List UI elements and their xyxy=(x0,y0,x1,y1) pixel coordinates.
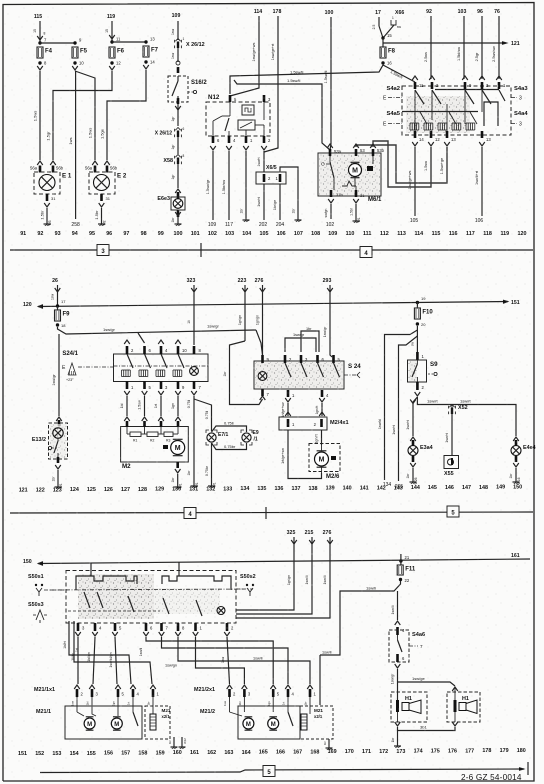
ground xyxy=(245,217,247,220)
svg-text:108: 108 xyxy=(311,231,320,237)
headlamp E2 xyxy=(92,161,98,165)
svg-text:S4a5: S4a5 xyxy=(386,111,400,117)
svg-text:102: 102 xyxy=(208,231,217,237)
svg-text:1sw/rt: 1sw/rt xyxy=(257,197,261,207)
fuse F11 xyxy=(397,565,403,575)
svg-text:180: 180 xyxy=(517,748,526,754)
svg-text:133: 133 xyxy=(223,486,232,492)
S50 coupling line xyxy=(50,589,253,590)
svg-text:53b: 53b xyxy=(377,148,385,153)
wire S50-3 1li/br xyxy=(77,637,79,684)
S24/1 top pin 8 xyxy=(193,346,196,354)
wire pin7 0.75li ground xyxy=(193,396,195,483)
S4a top pin 1 xyxy=(496,76,502,80)
wire F6 to E1 1.5gr xyxy=(53,71,112,160)
svg-text:167: 167 xyxy=(293,749,302,755)
svg-text:161: 161 xyxy=(511,553,520,559)
svg-text:0.75br: 0.75br xyxy=(205,465,209,476)
lamp E9/1 xyxy=(241,430,244,433)
M6/1 motor xyxy=(349,164,362,177)
svg-text:M2/6: M2/6 xyxy=(326,474,340,480)
svg-text:1rt: 1rt xyxy=(75,648,79,652)
S50 pin 8 xyxy=(177,623,180,631)
resistor unit M21 x2/1 right xyxy=(300,706,333,739)
svg-text:1br: 1br xyxy=(306,327,312,331)
svg-text:S4a3: S4a3 xyxy=(514,86,528,92)
M21/1 motor b xyxy=(111,718,122,729)
svg-text:171: 171 xyxy=(362,749,371,755)
wire S24-4 1gn/rt xyxy=(321,403,323,416)
svg-text:56b: 56b xyxy=(56,166,64,171)
pump M2/6 xyxy=(309,444,340,472)
svg-text:1.5sw: 1.5sw xyxy=(138,400,142,410)
svg-text:M: M xyxy=(319,456,325,463)
svg-text:124: 124 xyxy=(70,487,79,493)
N12 internal relay contact xyxy=(229,102,231,116)
svg-text:16: 16 xyxy=(387,61,392,66)
svg-text:1sw: 1sw xyxy=(221,656,225,663)
wire E7/1 ground 0.75br xyxy=(211,443,213,483)
svg-text:114: 114 xyxy=(254,9,262,15)
svg-text:X 26/12: X 26/12 xyxy=(155,131,172,137)
ground W1 xyxy=(177,484,179,487)
svg-text:2.5: 2.5 xyxy=(372,25,376,30)
svg-text:1gn: 1gn xyxy=(267,701,271,706)
wire F11 kink 1sw/li left xyxy=(320,581,401,655)
svg-text:1: 1 xyxy=(183,37,185,41)
svg-text:151: 151 xyxy=(511,300,520,306)
svg-text:1gn: 1gn xyxy=(112,701,116,706)
svg-text:1gr/gn: 1gr/gn xyxy=(256,315,260,325)
wire 71 feed node 21 xyxy=(399,559,402,562)
wire N12-6 1.5sw/gr to 109 xyxy=(212,151,214,220)
svg-text:+23°: +23° xyxy=(66,378,74,382)
svg-text:117: 117 xyxy=(225,222,233,228)
fuse F10 xyxy=(416,302,418,308)
svg-text:56a: 56a xyxy=(85,166,93,171)
svg-text:F11: F11 xyxy=(405,567,416,573)
svg-text:150: 150 xyxy=(23,559,32,565)
svg-text:101: 101 xyxy=(191,231,200,237)
svg-text:1.5ws: 1.5ws xyxy=(33,111,38,121)
node 14 xyxy=(144,60,147,63)
svg-text:96: 96 xyxy=(106,231,112,237)
S24/1 bottom pin 1 xyxy=(126,381,129,389)
svg-text:149: 149 xyxy=(496,485,505,491)
svg-text:H1: H1 xyxy=(462,696,469,702)
svg-text:1sw/rt: 1sw/rt xyxy=(392,425,396,435)
node 13 xyxy=(144,40,147,43)
ground stubs between motor groups xyxy=(173,737,175,744)
svg-text:1.5sw: 1.5sw xyxy=(424,161,428,171)
joint tick xyxy=(265,507,267,519)
section ref 3 xyxy=(97,245,109,256)
svg-text:148: 148 xyxy=(479,485,488,491)
S4a contact combs xyxy=(409,123,411,130)
S50 contact rail left xyxy=(76,576,137,590)
S24/1 lamp xyxy=(190,367,199,376)
S4a bottom pin 12 xyxy=(430,131,433,138)
ground W1 xyxy=(211,483,213,486)
svg-text:94: 94 xyxy=(72,231,78,237)
S50 contact rail right xyxy=(162,576,231,590)
svg-text:112: 112 xyxy=(380,231,389,237)
lamp E3a4 xyxy=(410,437,416,441)
wire X6/5 to ground 1br xyxy=(280,167,298,217)
svg-text:141: 141 xyxy=(360,486,369,492)
svg-text:10: 10 xyxy=(182,348,187,353)
wire F5 down 1ws to 258 xyxy=(75,71,77,219)
svg-text:110: 110 xyxy=(346,231,355,237)
svg-text:202: 202 xyxy=(259,222,268,228)
svg-text:132: 132 xyxy=(206,486,215,492)
S4a bottom pin 14 xyxy=(414,131,417,138)
svg-text:15: 15 xyxy=(387,33,392,38)
wire S4a6 to horns 1sw/gr xyxy=(397,669,399,700)
svg-text:153: 153 xyxy=(52,751,61,757)
svg-text:96: 96 xyxy=(477,9,483,15)
svg-text:3b1: 3b1 xyxy=(420,725,427,730)
svg-text:93: 93 xyxy=(55,231,61,237)
svg-text:M: M xyxy=(114,722,119,728)
S4a top pin 2 xyxy=(429,76,435,80)
svg-text:1sw/rt: 1sw/rt xyxy=(460,399,472,404)
ground W2 xyxy=(101,221,103,224)
svg-text:0.75li: 0.75li xyxy=(187,400,191,409)
S24 switch arms xyxy=(285,363,291,377)
svg-text:1gr/gn: 1gr/gn xyxy=(238,315,242,325)
svg-text:E9: E9 xyxy=(253,430,259,436)
svg-text:F9: F9 xyxy=(63,312,71,318)
fuse F4 xyxy=(37,47,43,58)
N12 pin 6 xyxy=(212,136,215,143)
svg-text:1sw/li: 1sw/li xyxy=(139,648,143,657)
svg-text:100: 100 xyxy=(325,10,334,16)
svg-text:115: 115 xyxy=(34,14,42,20)
svg-text:13: 13 xyxy=(486,137,491,142)
wire left stub to pin4 xyxy=(69,621,131,684)
svg-text:1br: 1br xyxy=(187,470,191,476)
svg-text:W3: W3 xyxy=(48,220,52,225)
wire horn grounds 3b1 xyxy=(395,722,401,726)
lamp E6e3 xyxy=(177,192,180,199)
svg-text:123: 123 xyxy=(53,487,62,493)
wire M2/4x1-1 1rt/ge+sw loop xyxy=(288,430,322,479)
svg-text:S50s3: S50s3 xyxy=(28,602,44,608)
wire link F6-F7 xyxy=(112,41,146,43)
switch S16/2 xyxy=(168,76,188,102)
svg-text:1gr: 1gr xyxy=(171,116,175,122)
N12 pin 1 xyxy=(245,136,248,143)
svg-text:150: 150 xyxy=(513,485,522,491)
S50 pin 2 xyxy=(226,623,229,631)
section ref 4 xyxy=(360,247,372,258)
svg-text:1sw/li: 1sw/li xyxy=(322,651,332,655)
wire S50-4 1bl/gn xyxy=(93,637,95,684)
divider line 2 xyxy=(10,512,533,513)
wire F11 down 1sw/li xyxy=(397,591,399,620)
svg-text:3: 3 xyxy=(519,96,522,102)
svg-text:154: 154 xyxy=(70,751,79,757)
joint tick xyxy=(200,243,202,257)
wire S4a-12 to M6/1 53b 1.5sw xyxy=(373,141,431,187)
svg-text:1gr: 1gr xyxy=(171,144,175,150)
svg-text:53a: 53a xyxy=(334,149,342,154)
svg-text:M: M xyxy=(246,722,251,728)
svg-text:X58: X58 xyxy=(163,158,173,164)
bus 120-151 xyxy=(38,302,508,307)
M21/1 motor a xyxy=(84,718,95,729)
svg-text:1gn/rt: 1gn/rt xyxy=(315,406,319,415)
svg-text:104: 104 xyxy=(242,231,251,237)
M21/2 motor a xyxy=(243,718,254,729)
wiper motor unit M6/1 xyxy=(318,153,381,196)
svg-text:137: 137 xyxy=(292,486,301,492)
svg-text:135: 135 xyxy=(257,486,266,492)
bus 150-161 xyxy=(38,559,530,564)
connector X58 xyxy=(175,155,180,158)
S4a top pin 11 xyxy=(412,76,418,80)
svg-text:1.5sw/li: 1.5sw/li xyxy=(287,78,300,83)
svg-text:1sw/rt: 1sw/rt xyxy=(257,157,261,166)
svg-text:M: M xyxy=(175,445,181,452)
svg-text:121: 121 xyxy=(511,41,520,47)
svg-text:1sw/gr: 1sw/gr xyxy=(207,324,219,329)
ground stub M21/2 xyxy=(328,739,330,745)
svg-text:143: 143 xyxy=(394,485,403,491)
fuse F8 xyxy=(380,47,386,58)
S50 inner dashes xyxy=(68,610,160,612)
svg-text:161: 161 xyxy=(190,750,199,756)
wire X52 to X55 1sw/rt xyxy=(451,414,453,455)
wire to S16/2 1sw xyxy=(177,48,179,62)
svg-text:1sw/li: 1sw/li xyxy=(253,657,263,661)
svg-text:W12: W12 xyxy=(183,738,187,744)
wire branch 134 xyxy=(385,330,418,480)
wire X52 to E4e4 1sw/rt xyxy=(452,405,516,437)
svg-text:M2: M2 xyxy=(122,463,131,470)
svg-text:76: 76 xyxy=(494,9,500,15)
S24 bottom pin 1 xyxy=(287,390,290,397)
svg-text:E13/2: E13/2 xyxy=(32,437,46,443)
svg-text:106: 106 xyxy=(475,218,484,224)
svg-text:sw: sw xyxy=(411,341,415,346)
svg-text:3: 3 xyxy=(519,122,522,128)
svg-text:1.5ge: 1.5ge xyxy=(100,128,105,139)
node 15 xyxy=(381,36,384,39)
svg-text:1sw/rt: 1sw/rt xyxy=(406,420,410,430)
svg-text:M: M xyxy=(352,167,358,174)
svg-text:17: 17 xyxy=(61,299,66,304)
svg-text:1.5bl/sw: 1.5bl/sw xyxy=(457,47,461,61)
svg-text:122: 122 xyxy=(36,487,45,493)
svg-text:276: 276 xyxy=(255,278,264,284)
wire branch to M6/1 53a 1.5sw/li xyxy=(234,80,330,150)
svg-text:2.5gr: 2.5gr xyxy=(475,52,479,61)
svg-text:0.75li: 0.75li xyxy=(224,421,234,426)
svg-text:R3: R3 xyxy=(166,439,170,443)
svg-text:1sw/li: 1sw/li xyxy=(323,575,327,584)
node 18 xyxy=(56,323,59,326)
node 11 xyxy=(110,40,113,43)
switch S4a6 xyxy=(396,627,399,635)
svg-text:2.5ws/sw: 2.5ws/sw xyxy=(492,46,496,62)
svg-text:1gr/gn: 1gr/gn xyxy=(287,575,291,585)
svg-text:1.5sw/li: 1.5sw/li xyxy=(290,70,303,75)
svg-text:174: 174 xyxy=(414,749,423,755)
svg-text:325: 325 xyxy=(287,530,296,536)
blower unit M2 xyxy=(121,427,189,463)
svg-text:8: 8 xyxy=(183,154,185,158)
S24 top pin 6 xyxy=(316,355,319,363)
svg-text:15: 15 xyxy=(33,29,37,33)
svg-text:115: 115 xyxy=(432,231,441,237)
svg-text:F10: F10 xyxy=(422,310,433,316)
svg-text:S4a2: S4a2 xyxy=(386,86,400,92)
svg-text:107: 107 xyxy=(294,231,303,237)
svg-text:1.5sw/gr: 1.5sw/gr xyxy=(206,179,210,194)
wire 1gr xyxy=(177,137,179,154)
S4a internal cross rail xyxy=(402,111,478,113)
S24 top pin 9 xyxy=(261,355,264,363)
svg-text:F5: F5 xyxy=(80,49,88,55)
connector X52 xyxy=(449,405,454,408)
svg-text:15: 15 xyxy=(105,29,109,33)
svg-text:S4a4: S4a4 xyxy=(514,111,528,117)
switch S9 xyxy=(416,352,419,360)
svg-text:E6e3: E6e3 xyxy=(157,196,170,202)
M6/1 brush block xyxy=(367,166,373,171)
bottom divider xyxy=(40,769,524,773)
connector M2/4x1 xyxy=(279,417,327,430)
N12 pin 5 xyxy=(229,95,232,102)
svg-text:1sw/gr: 1sw/gr xyxy=(52,374,56,386)
svg-text:127: 127 xyxy=(121,487,130,493)
wire to S24/1 pin6 xyxy=(138,333,145,343)
S24/1 bottom pin 5 xyxy=(143,381,146,389)
svg-text:1.5br/sw: 1.5br/sw xyxy=(222,180,226,195)
svg-text:E4e4: E4e4 xyxy=(523,445,536,451)
svg-text:147: 147 xyxy=(462,485,471,491)
wire S4a-14 1sw/ge+ws to 105 xyxy=(414,147,416,216)
svg-text:119: 119 xyxy=(500,231,509,237)
svg-text:1sw/ge+ws: 1sw/ge+ws xyxy=(252,42,256,61)
svg-text:140: 140 xyxy=(343,486,352,492)
wire F10 to S9 xyxy=(416,326,418,352)
svg-text:56b: 56b xyxy=(110,166,118,171)
svg-text:20: 20 xyxy=(421,322,426,327)
svg-text:164: 164 xyxy=(242,750,251,756)
wire S9 to E3a4 1sw/rt xyxy=(413,397,417,436)
wire E13/2 ground 1br xyxy=(57,470,59,484)
section ref 5b xyxy=(263,766,275,777)
S24 jumper 1br xyxy=(301,331,319,352)
M6/1 pin 53b xyxy=(370,144,376,148)
wire F8 to N12-5 1.5sw/li xyxy=(230,65,383,94)
ground below E6e3 xyxy=(177,221,179,224)
wire X6/5-2 1sw/rt to 202 xyxy=(263,184,265,220)
wire S50-7 to M21/2x1-4 xyxy=(162,637,289,684)
M2 brush block xyxy=(163,445,168,449)
svg-text:1li: 1li xyxy=(187,320,191,324)
S24 bottom pin 4 xyxy=(321,390,324,397)
svg-text:258: 258 xyxy=(71,222,80,228)
svg-text:178: 178 xyxy=(273,9,282,15)
svg-text:F6: F6 xyxy=(117,49,125,55)
ground W16 xyxy=(515,479,517,482)
wire 121 out xyxy=(383,42,506,44)
svg-text:S50s1: S50s1 xyxy=(28,574,44,580)
ground W1 xyxy=(57,484,59,487)
svg-text:14: 14 xyxy=(150,60,155,65)
ground xyxy=(297,217,299,220)
svg-text:1.5ws: 1.5ws xyxy=(88,128,93,138)
connector X26/12 upper xyxy=(175,39,180,42)
svg-text:N12: N12 xyxy=(208,94,220,101)
wire E2 ground 1.5br xyxy=(101,208,103,221)
svg-text:M: M xyxy=(87,722,92,728)
svg-text:31b: 31b xyxy=(336,192,343,197)
svg-text:163: 163 xyxy=(224,750,233,756)
svg-text:W1: W1 xyxy=(357,217,361,222)
M21/2 motor b xyxy=(268,718,279,729)
svg-text:M6/1: M6/1 xyxy=(368,197,382,203)
svg-text:1br: 1br xyxy=(223,371,227,377)
svg-text:99: 99 xyxy=(158,231,164,237)
svg-text:1bl: 1bl xyxy=(238,701,242,705)
svg-text:1br: 1br xyxy=(240,208,244,214)
wire S4a-13 to M6/1 53 1.5sw+ge xyxy=(356,145,447,183)
N12 pin 3 xyxy=(263,95,266,102)
svg-text:14: 14 xyxy=(419,137,424,142)
S4a internal verticals xyxy=(414,90,416,131)
svg-text:M21/2: M21/2 xyxy=(200,709,215,715)
S24/1 contact combs xyxy=(121,370,123,377)
svg-text:156: 156 xyxy=(104,751,113,757)
svg-text:7: 7 xyxy=(420,644,423,649)
svg-text:E7/1: E7/1 xyxy=(218,432,229,438)
svg-text:E 2: E 2 xyxy=(117,173,127,180)
wire E1 ground 1.5br xyxy=(46,208,48,221)
ground W3 xyxy=(46,221,48,224)
svg-text:145: 145 xyxy=(428,485,437,491)
S24/1 bottom pin 3 xyxy=(160,381,163,389)
svg-text:F8: F8 xyxy=(388,49,396,55)
S50 switch arms xyxy=(84,592,90,608)
svg-text:1br: 1br xyxy=(168,740,172,744)
resistor R1 xyxy=(130,432,141,437)
wire X6/5-1 1br/ge to 204 xyxy=(279,184,281,220)
svg-text:1.5br: 1.5br xyxy=(40,210,45,220)
switch pack S50 xyxy=(66,571,236,624)
S24 top pin 5 xyxy=(332,355,335,363)
svg-text:X6/5: X6/5 xyxy=(266,165,277,171)
svg-text:E 1: E 1 xyxy=(62,173,72,180)
svg-text:162: 162 xyxy=(207,750,216,756)
svg-text:R1: R1 xyxy=(133,439,137,443)
section ref 4b xyxy=(184,508,196,519)
wire 1bl xyxy=(126,396,128,416)
svg-text:103: 103 xyxy=(225,231,234,237)
wire M2/4x1-2 1gn/rt xyxy=(321,430,323,445)
svg-text:S 24: S 24 xyxy=(348,363,361,370)
wire F9 1sw/gr feed xyxy=(58,327,257,334)
svg-text:11: 11 xyxy=(116,37,121,42)
svg-text:31: 31 xyxy=(51,196,56,201)
svg-text:121: 121 xyxy=(19,488,28,494)
ground W26 xyxy=(412,479,414,482)
connector X26/12 lower xyxy=(175,128,180,131)
